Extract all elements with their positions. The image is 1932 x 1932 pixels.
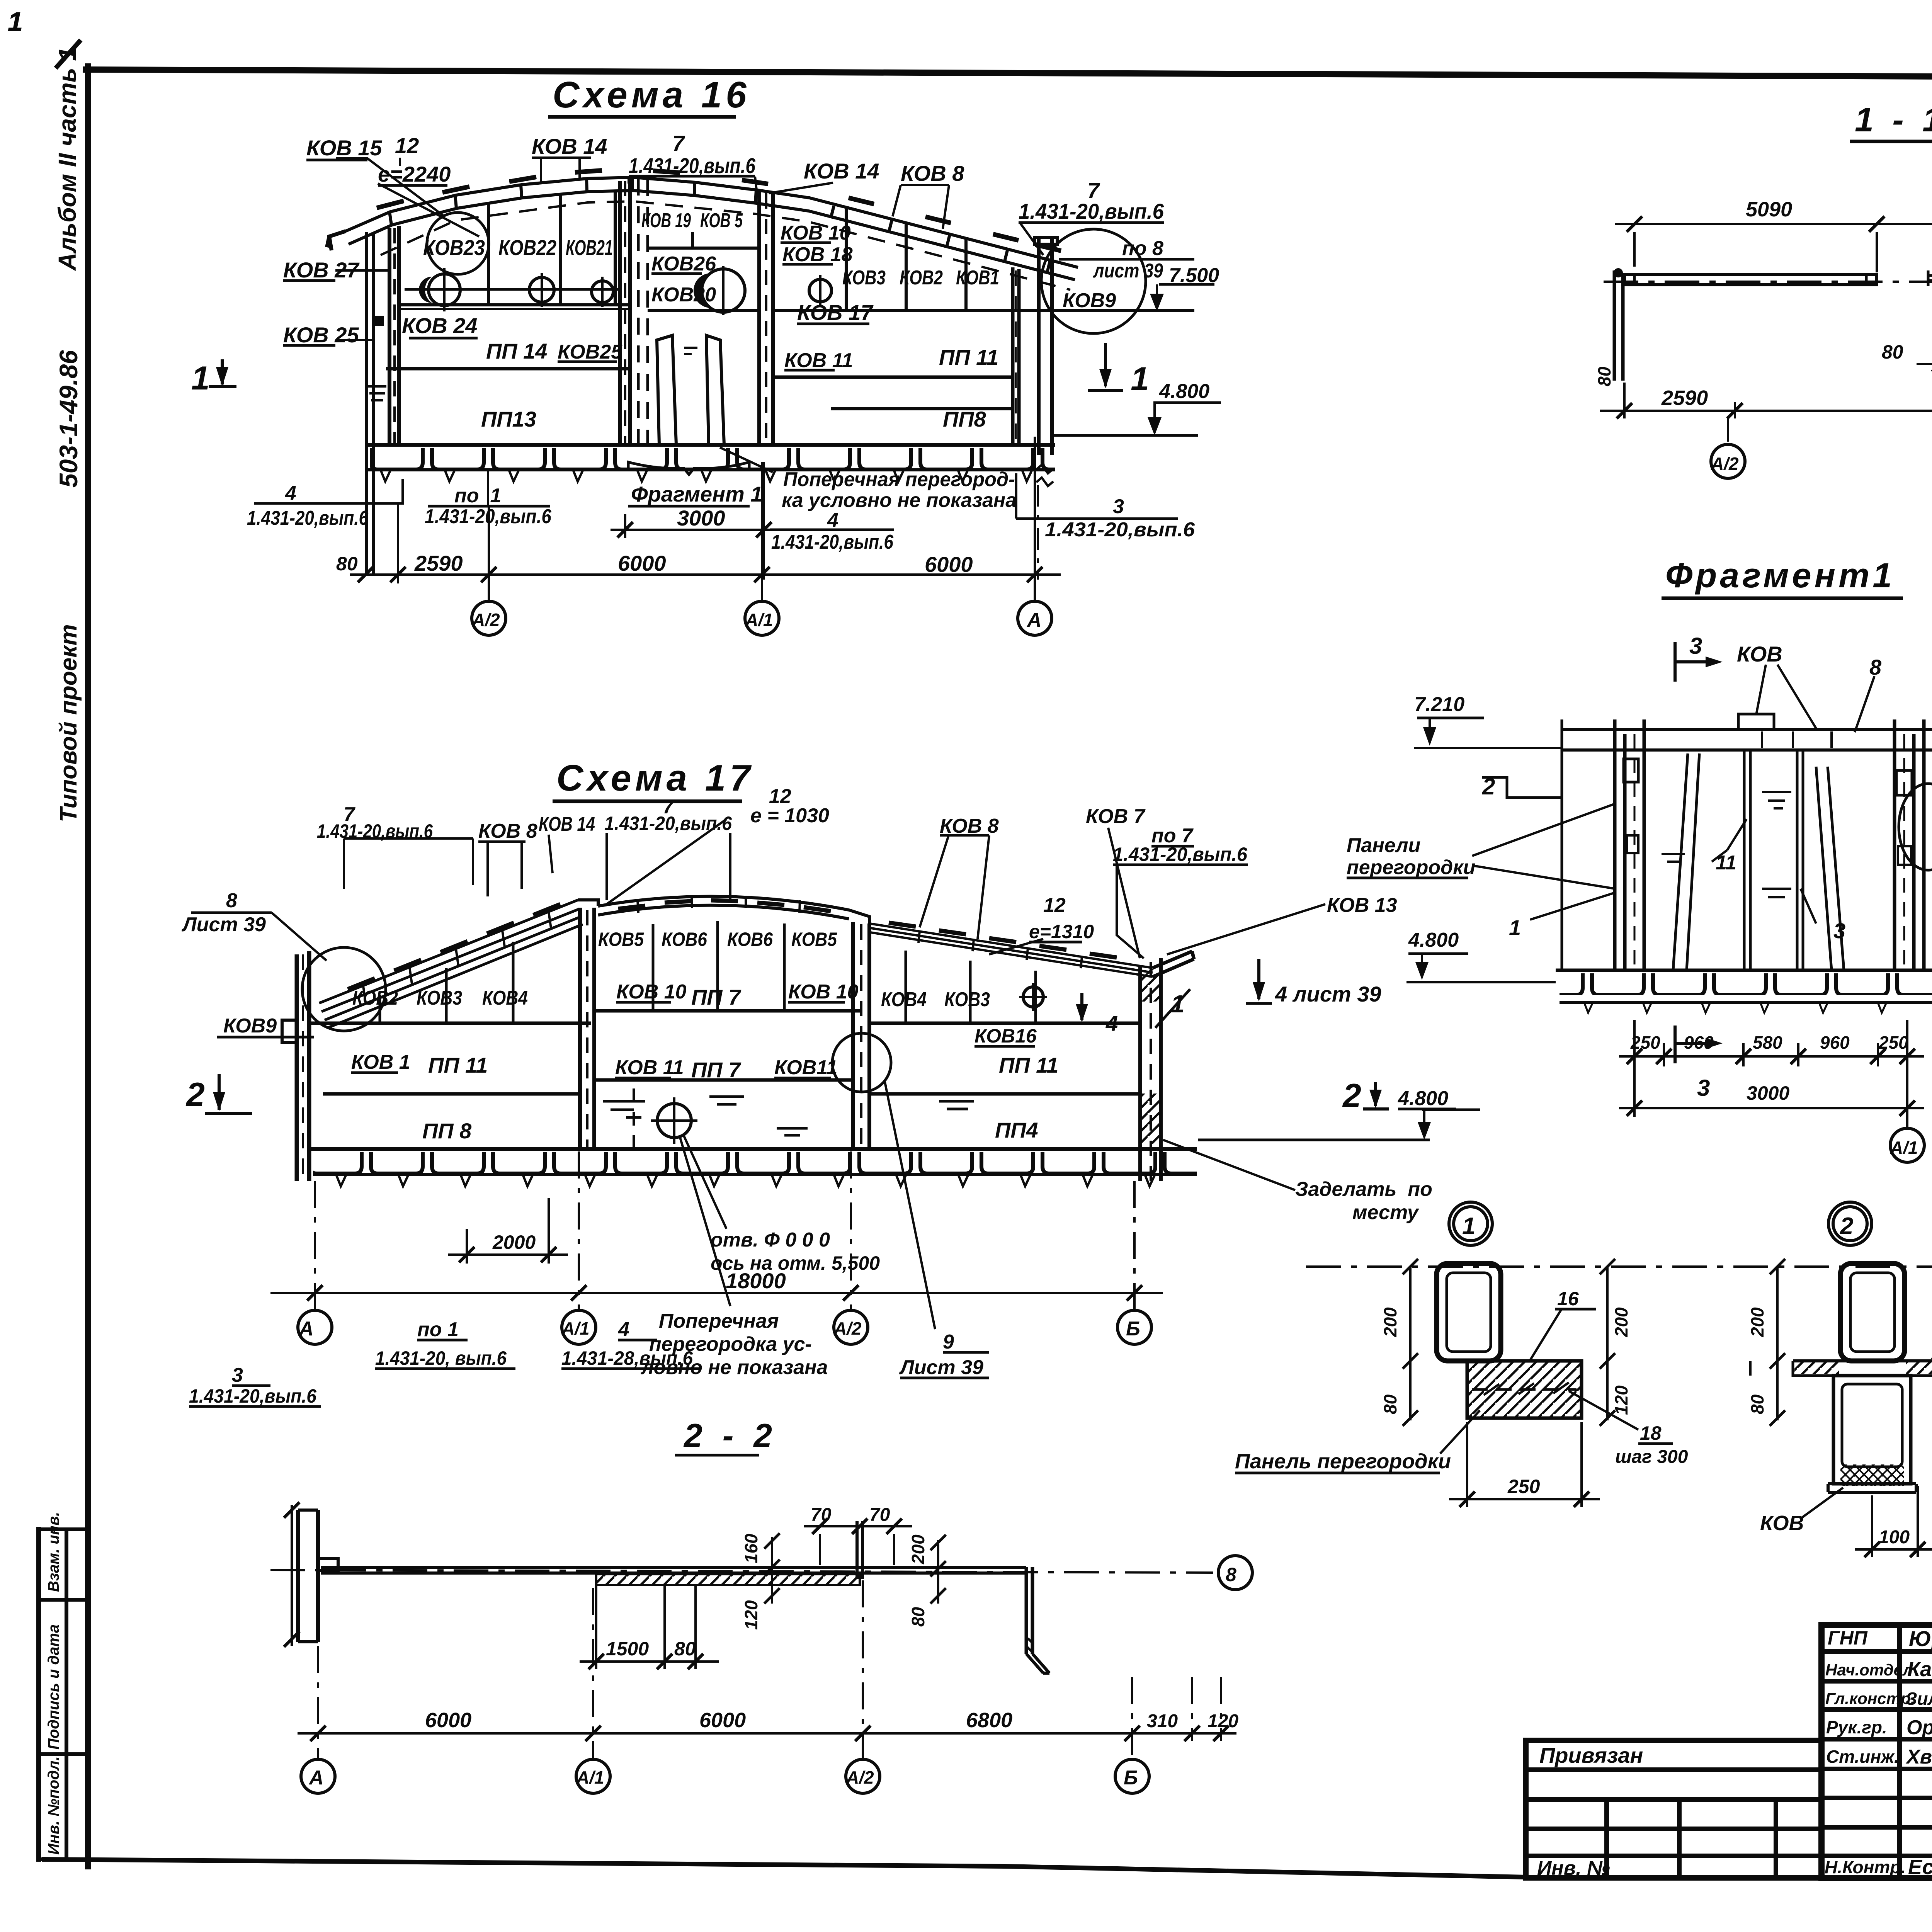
roof panel ticks [389, 177, 1050, 272]
svg-text:250: 250 [1630, 1032, 1660, 1053]
svg-text:отв. Ф 0 0 0: отв. Ф 0 0 0 [711, 1229, 830, 1251]
2 section marks [205, 1074, 252, 1114]
vent circle K21 [592, 281, 613, 303]
svg-text:1.431-20,вып.6: 1.431-20,вып.6 [604, 813, 732, 834]
SECTION22 [270, 1502, 1252, 1793]
line y976 right bay [773, 376, 1013, 379]
kov13 leader [1167, 904, 1325, 954]
SECTION11 [1594, 100, 1932, 478]
earth marks [368, 386, 386, 400]
7 right leader [1020, 223, 1043, 255]
svg-text:6800: 6800 [966, 1709, 1012, 1732]
tube [1840, 1264, 1905, 1361]
right column [1039, 236, 1052, 455]
svg-text:2000: 2000 [492, 1231, 536, 1253]
svg-text:А/1: А/1 [576, 1767, 604, 1787]
svg-text:Нач.отдел: Нач.отдел [1825, 1661, 1913, 1679]
svg-text:Инв. №подл.: Инв. №подл. [45, 1756, 62, 1855]
privyazan side table [1526, 1740, 1821, 1878]
right bay mullions [846, 209, 966, 310]
svg-text:Привязан: Привязан [1539, 1743, 1643, 1767]
svg-text:Панели: Панели [1347, 834, 1420, 857]
small vertical dims [771, 1537, 773, 1604]
svg-text:80: 80 [1380, 1394, 1400, 1414]
9 list39 leader [885, 1082, 935, 1329]
svg-text:КОВ26: КОВ26 [651, 253, 716, 275]
plate height dim [291, 1505, 293, 1646]
callout circle right eave [1041, 229, 1146, 333]
svg-text:Схема 16: Схема 16 [553, 74, 750, 116]
svg-text:Взам. инв.: Взам. инв. [45, 1512, 62, 1592]
floor slab band [367, 443, 1055, 447]
dims left [1776, 1267, 1779, 1364]
svg-text:лист 39: лист 39 [1092, 260, 1163, 282]
left bay mullions [380, 942, 513, 1023]
svg-text:КОВ2: КОВ2 [352, 987, 398, 1009]
svg-text:Лист 39: Лист 39 [181, 913, 266, 936]
left beam [1624, 275, 1877, 285]
poperechnaya leader [680, 1138, 730, 1306]
70 70 dim [804, 1525, 912, 1527]
svg-text:КОВ2: КОВ2 [900, 267, 943, 289]
section mark 1 left [209, 359, 236, 386]
250 dim [1467, 1422, 1582, 1507]
FRAGMENT1 [1406, 556, 1932, 1162]
left wall plate [297, 951, 309, 1181]
svg-text:Фрагмент1: Фрагмент1 [1665, 556, 1895, 595]
main dim chain [350, 573, 1061, 576]
svg-text:ПП 11: ПП 11 [999, 1053, 1058, 1077]
centerline [270, 1570, 1213, 1573]
svg-text:3: 3 [1689, 633, 1702, 659]
svg-text:1: 1 [8, 7, 23, 37]
svg-text:ПП 7: ПП 7 [691, 1058, 742, 1082]
kov leader [1801, 1488, 1843, 1519]
svg-text:3: 3 [1113, 495, 1124, 518]
corner slash [57, 42, 79, 66]
svg-text:ка условно не показана: ка условно не показана [782, 489, 1017, 512]
svg-text:КОВ 10: КОВ 10 [788, 981, 859, 1003]
svg-text:КОВ 14: КОВ 14 [804, 159, 879, 183]
7.210 mark [1417, 717, 1484, 719]
right element [1026, 1567, 1032, 1654]
beam double line [321, 1567, 1026, 1573]
po1 leader vertical [487, 470, 489, 506]
door leaves [657, 335, 724, 445]
svg-text:КОВ3: КОВ3 [417, 987, 462, 1009]
svg-text:КОВ6: КОВ6 [727, 929, 773, 950]
svg-text:3000: 3000 [677, 506, 725, 530]
partition 2 [759, 190, 773, 445]
hatched block [1467, 1361, 1582, 1418]
grid bubbles [472, 601, 506, 635]
svg-text:перегородки: перегородки [1347, 856, 1475, 879]
dims below [1634, 1020, 1907, 1128]
svg-text:КОВ11: КОВ11 [774, 1056, 837, 1079]
svg-text:КОВ23: КОВ23 [423, 235, 485, 260]
roof left slope band [319, 900, 583, 1028]
svg-text:250: 250 [1878, 1032, 1908, 1053]
svg-text:70: 70 [811, 1505, 832, 1525]
svg-text:6000: 6000 [425, 1709, 471, 1732]
svg-text:2: 2 [1482, 774, 1495, 799]
svg-text:по 1: по 1 [417, 1318, 459, 1341]
kov14 bracket left [532, 158, 591, 182]
svg-text:11: 11 [1716, 852, 1736, 874]
svg-text:КОВ 11: КОВ 11 [784, 349, 853, 372]
left bay ceiling [309, 1022, 591, 1025]
8 list39 left leader [272, 913, 327, 961]
svg-text:80: 80 [1594, 366, 1614, 386]
svg-text:200: 200 [908, 1534, 928, 1565]
right bay vent [1023, 987, 1043, 1007]
ripples [1662, 792, 1791, 897]
2 step mark [1482, 777, 1562, 798]
svg-text:12: 12 [395, 133, 419, 158]
svg-text:100: 100 [1879, 1527, 1910, 1548]
svg-text:4: 4 [285, 482, 296, 505]
svg-text:КОВ 8: КОВ 8 [478, 820, 537, 842]
svg-text:2: 2 [185, 1076, 205, 1113]
center ceiling line [594, 1009, 862, 1013]
svg-text:4.800: 4.800 [1408, 929, 1459, 951]
scheme16 labels [191, 131, 1219, 631]
svg-text:200: 200 [1380, 1307, 1400, 1337]
svg-text:2 - 2: 2 - 2 [683, 1417, 777, 1454]
mid lines [323, 1092, 580, 1096]
4 list39 section arrow [1257, 959, 1260, 999]
svg-text:80: 80 [336, 553, 358, 575]
svg-text:6000: 6000 [925, 552, 973, 577]
grid bubbles [301, 1759, 335, 1793]
svg-text:1: 1 [1509, 915, 1521, 940]
svg-text:месту: месту [1352, 1201, 1420, 1224]
po9 callout circle [1899, 784, 1932, 870]
grid bubbles [1711, 444, 1745, 478]
svg-text:310: 310 [1147, 1711, 1178, 1731]
svg-text:КОВ16: КОВ16 [975, 1025, 1037, 1047]
left eave callout circle [302, 947, 386, 1031]
center module lines [648, 247, 759, 250]
box below [1833, 1376, 1911, 1484]
4 bottom-left L-leader [254, 479, 403, 503]
svg-text:4.800: 4.800 [1398, 1087, 1448, 1110]
kov14 right leader [769, 183, 833, 193]
svg-text:КОВ 1: КОВ 1 [351, 1051, 410, 1073]
svg-text:КОВ 11: КОВ 11 [615, 1056, 684, 1079]
svg-text:1.431-20,вып.6: 1.431-20,вып.6 [629, 153, 756, 178]
callout circle left roof [427, 213, 489, 274]
left bay mullions [488, 190, 615, 305]
step at partition2 [849, 910, 869, 923]
svg-text:1.431-20,вып.6: 1.431-20,вып.6 [317, 820, 433, 842]
svg-text:КОВ 10: КОВ 10 [616, 981, 687, 1003]
svg-text:КОВ21: КОВ21 [566, 235, 613, 260]
svg-text:Поперечная: Поперечная [659, 1310, 779, 1332]
svg-text:Зильбертов: Зильбертов [1906, 1689, 1932, 1709]
svg-text:2: 2 [1342, 1077, 1361, 1114]
svg-text:А/2: А/2 [472, 610, 500, 630]
vent circle right [809, 279, 832, 302]
kov17 underline [797, 323, 869, 325]
svg-text:КОВ 13: КОВ 13 [1327, 894, 1397, 917]
svg-text:КОВ4: КОВ4 [881, 988, 927, 1011]
svg-text:1: 1 [1171, 990, 1185, 1018]
svg-text:А: А [308, 1767, 324, 1789]
svg-text:КОВ 14: КОВ 14 [539, 813, 595, 835]
partition 1 [580, 908, 594, 1149]
section mark 1 right [1088, 343, 1123, 390]
vent circle K22 [529, 277, 554, 302]
svg-text:80: 80 [1747, 1394, 1767, 1414]
svg-text:Рук.гр.: Рук.гр. [1826, 1717, 1887, 1737]
svg-text:КОВ25: КОВ25 [558, 341, 622, 363]
ceiling dashed line [381, 201, 1070, 290]
svg-text:КОВ 25: КОВ 25 [283, 323, 359, 347]
leader lines labels left [335, 270, 389, 340]
svg-text:Ст.инж.: Ст.инж. [1826, 1747, 1899, 1767]
svg-text:Подпись и дата: Подпись и дата [45, 1624, 62, 1750]
scheme17 labels [181, 785, 1475, 1454]
roof seam clips [377, 170, 1061, 251]
svg-text:1: 1 [1131, 361, 1149, 398]
svg-text:7.500: 7.500 [1169, 264, 1219, 287]
svg-text:Схема 17: Схема 17 [556, 757, 754, 799]
svg-text:8: 8 [226, 889, 237, 912]
svg-text:3: 3 [1833, 918, 1845, 943]
notch [318, 1559, 338, 1570]
svg-text:6000: 6000 [618, 551, 666, 575]
svg-text:3: 3 [1697, 1075, 1710, 1101]
hatched band [596, 1574, 860, 1585]
svg-text:200: 200 [1747, 1307, 1767, 1337]
svg-text:5090: 5090 [1746, 198, 1792, 221]
center mullions [653, 921, 784, 1011]
leaders top labels [344, 838, 473, 889]
transom line through vents [405, 288, 621, 291]
svg-text:КОВ6: КОВ6 [662, 929, 707, 950]
left eave tip [327, 231, 346, 250]
svg-text:ПП 11: ПП 11 [428, 1053, 488, 1077]
11 / 1 / 3 leaders [1712, 819, 1747, 862]
svg-text:e = 1030: e = 1030 [750, 804, 829, 827]
svg-text:16: 16 [1557, 1288, 1579, 1310]
svg-text:80: 80 [1882, 341, 1903, 363]
svg-text:ПП8: ПП8 [943, 407, 986, 431]
svg-text:1.431-20,вып.6: 1.431-20,вып.6 [1019, 199, 1164, 223]
svg-text:КОВ 10: КОВ 10 [781, 222, 851, 244]
lower band ripples [603, 1097, 974, 1135]
top dim [1634, 232, 1932, 272]
svg-text:3000: 3000 [1747, 1082, 1789, 1104]
svg-text:шаг 300: шаг 300 [1615, 1447, 1688, 1467]
svg-text:Катков: Катков [1907, 1658, 1932, 1681]
svg-text:КОВ 27: КОВ 27 [283, 258, 360, 282]
svg-text:18: 18 [1640, 1422, 1662, 1444]
svg-text:12: 12 [1043, 894, 1066, 917]
svg-text:ПП4: ПП4 [995, 1118, 1038, 1142]
line under PP14 band [386, 367, 631, 371]
kov15 leader [336, 158, 444, 216]
leader popered [720, 447, 773, 472]
svg-text:по 1: по 1 [454, 485, 501, 507]
svg-text:960: 960 [1820, 1032, 1850, 1053]
dims right [1606, 1267, 1609, 1420]
svg-text:Панель перегородки: Панель перегородки [1235, 1450, 1451, 1473]
svg-text:7.210: 7.210 [1414, 693, 1464, 716]
titleblock texts [1537, 1626, 1932, 1916]
svg-text:1.431-20, вып.6: 1.431-20, вып.6 [375, 1347, 507, 1369]
16 leader [1530, 1310, 1561, 1360]
svg-text:КОВ 19: КОВ 19 [641, 209, 691, 232]
2000 dim [467, 1198, 549, 1264]
1500 80 dim [596, 1584, 696, 1669]
svg-text:КОВ: КОВ [1737, 642, 1782, 666]
svg-text:1.431-20,вып.6: 1.431-20,вып.6 [247, 507, 369, 529]
svg-text:Б: Б [1124, 1767, 1138, 1789]
big vent circle with crescent [702, 269, 745, 312]
right wall [1140, 958, 1161, 1181]
svg-text:ПП 7: ПП 7 [691, 985, 742, 1009]
svg-text:160: 160 [741, 1534, 761, 1563]
3 section bottom [1675, 1026, 1708, 1063]
svg-text:А/2: А/2 [1711, 454, 1739, 474]
TITLEBLOCK [1526, 1625, 1932, 1925]
svg-text:1 - 1: 1 - 1 [1855, 100, 1932, 139]
sill line right bay extended to level line [773, 309, 1194, 312]
paneli peregorodki leaders [1472, 804, 1615, 889]
center partition double pair [620, 179, 630, 445]
svg-text:КОВ 18: КОВ 18 [782, 243, 853, 266]
grid verticals to bubbles [1728, 371, 1932, 444]
SCHEME16 [191, 74, 1221, 635]
otv leader [684, 1136, 726, 1229]
svg-text:КОВ1: КОВ1 [956, 267, 999, 289]
panel peregorodki leader [1440, 1410, 1480, 1454]
svg-text:Б: Б [1126, 1318, 1140, 1340]
svg-text:8: 8 [1226, 1564, 1236, 1585]
main dim 18000 [270, 1292, 1163, 1294]
fragment brace [628, 462, 749, 474]
roof outer chord [346, 177, 1078, 267]
svg-text:e=2240: e=2240 [378, 162, 451, 186]
dims left [1409, 1267, 1412, 1364]
svg-text:120: 120 [1611, 1385, 1631, 1415]
svg-text:А/2: А/2 [846, 1767, 874, 1787]
svg-text:1.431-20,вып.6: 1.431-20,вып.6 [1045, 519, 1195, 541]
svg-text:КОВ 24: КОВ 24 [402, 313, 478, 338]
svg-text:по 8: по 8 [1122, 237, 1163, 260]
signature table [1821, 1625, 1932, 1878]
svg-text:КОВ 15: КОВ 15 [306, 136, 382, 160]
inner panels [1744, 750, 1803, 970]
kov 8 leaders [1756, 665, 1874, 732]
3 section top [1675, 642, 1708, 682]
svg-text:6000: 6000 [699, 1709, 746, 1732]
svg-text:8: 8 [1869, 655, 1882, 679]
center arc roof [598, 896, 849, 919]
line y1058 right bay [831, 407, 1013, 410]
svg-text:1: 1 [191, 360, 210, 397]
svg-text:КОВ 17: КОВ 17 [797, 300, 874, 325]
svg-text:ось на отм. 5,500: ось на отм. 5,500 [711, 1252, 880, 1274]
svg-text:Хвостова: Хвостова [1905, 1746, 1932, 1768]
svg-text:503-1-49.86: 503-1-49.86 [54, 350, 83, 488]
svg-text:Есина: Есина [1908, 1855, 1932, 1879]
svg-text:КОВ4: КОВ4 [482, 987, 528, 1009]
svg-text:КОВ5: КОВ5 [791, 929, 837, 950]
kov8 bracket [893, 185, 949, 229]
svg-text:КОВ 8: КОВ 8 [940, 815, 999, 837]
svg-text:Поперечная перегород-: Поперечная перегород- [783, 468, 1015, 491]
svg-text:А/1: А/1 [745, 610, 773, 630]
common centerline [1306, 1265, 1932, 1268]
svg-text:9: 9 [943, 1331, 954, 1353]
ridge step [578, 900, 598, 906]
zadel leader [1163, 1140, 1295, 1190]
detail number bubbles [1449, 1202, 1932, 1245]
svg-text:3: 3 [232, 1364, 243, 1386]
roof inner chord [349, 190, 1075, 280]
left margin rotated captions [45, 47, 83, 1855]
svg-text:КОВ 14: КОВ 14 [532, 134, 607, 158]
svg-text:Н.Контр.: Н.Контр. [1825, 1857, 1906, 1877]
T strut [857, 1521, 862, 1579]
left end vertical member [1614, 270, 1623, 381]
7.500 level mark [1159, 283, 1214, 286]
svg-text:ПП 11: ПП 11 [939, 345, 998, 369]
svg-text:ГНП: ГНП [1828, 1627, 1868, 1649]
slope seam clips [348, 904, 560, 989]
wall anchor square [374, 316, 384, 326]
svg-text:960: 960 [1684, 1032, 1714, 1053]
DETAILS123 [1235, 1202, 1932, 1621]
svg-text:ПП13: ПП13 [481, 407, 536, 431]
svg-text:120: 120 [741, 1600, 761, 1630]
svg-text:Альбом II часть 1: Альбом II часть 1 [53, 47, 81, 271]
svg-text:Заделать по: Заделать по [1295, 1178, 1432, 1201]
svg-text:перегородка ус-: перегородка ус- [649, 1333, 812, 1355]
svg-text:1.431-20,вып.6: 1.431-20,вып.6 [425, 505, 552, 528]
7 bracket ridge [629, 177, 757, 193]
left wall plate [298, 1510, 318, 1642]
main dim [298, 1732, 1236, 1735]
svg-text:А: А [1026, 609, 1042, 631]
4.800 right level [1422, 1109, 1480, 1111]
svg-text:Фрагмент 1: Фрагмент 1 [631, 482, 762, 506]
right wall panel [1013, 267, 1019, 445]
svg-text:e=1310: e=1310 [1029, 921, 1094, 942]
svg-text:КОВ 5: КОВ 5 [700, 209, 743, 232]
svg-text:А/1: А/1 [561, 1318, 590, 1338]
svg-text:580: 580 [1753, 1032, 1782, 1053]
left margin mini table [39, 1529, 93, 1859]
svg-text:КОВ3: КОВ3 [842, 267, 886, 289]
svg-text:КОВ20: КОВ20 [651, 284, 716, 306]
section 4 arrow [1069, 993, 1096, 1023]
svg-text:1.431-20,вып.6: 1.431-20,вып.6 [771, 531, 894, 553]
centerline [1604, 281, 1932, 283]
svg-text:250: 250 [1507, 1476, 1540, 1497]
18 shag300 leader [1569, 1391, 1638, 1430]
svg-text:1.431-20,вып.6: 1.431-20,вып.6 [189, 1385, 317, 1407]
middle T element [1927, 276, 1932, 332]
dim 3000 [625, 462, 764, 580]
100 150 dims [1872, 1430, 1932, 1557]
floor [1556, 969, 1932, 972]
svg-text:КОВ 8: КОВ 8 [901, 161, 964, 185]
svg-text:1: 1 [1462, 1213, 1475, 1240]
